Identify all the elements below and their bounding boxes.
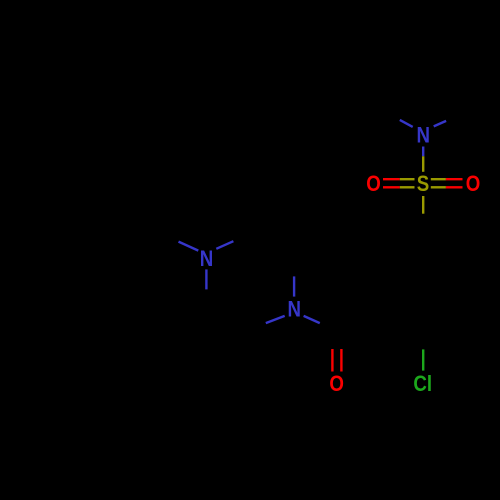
svg-text:O: O [366,173,381,197]
svg-text:S: S [417,173,429,197]
svg-text:O: O [466,173,481,197]
svg-text:O: O [329,373,344,397]
svg-text:N: N [287,298,301,322]
svg-text:Cl: Cl [413,373,432,397]
svg-text:N: N [416,124,430,148]
svg-text:N: N [200,248,214,272]
